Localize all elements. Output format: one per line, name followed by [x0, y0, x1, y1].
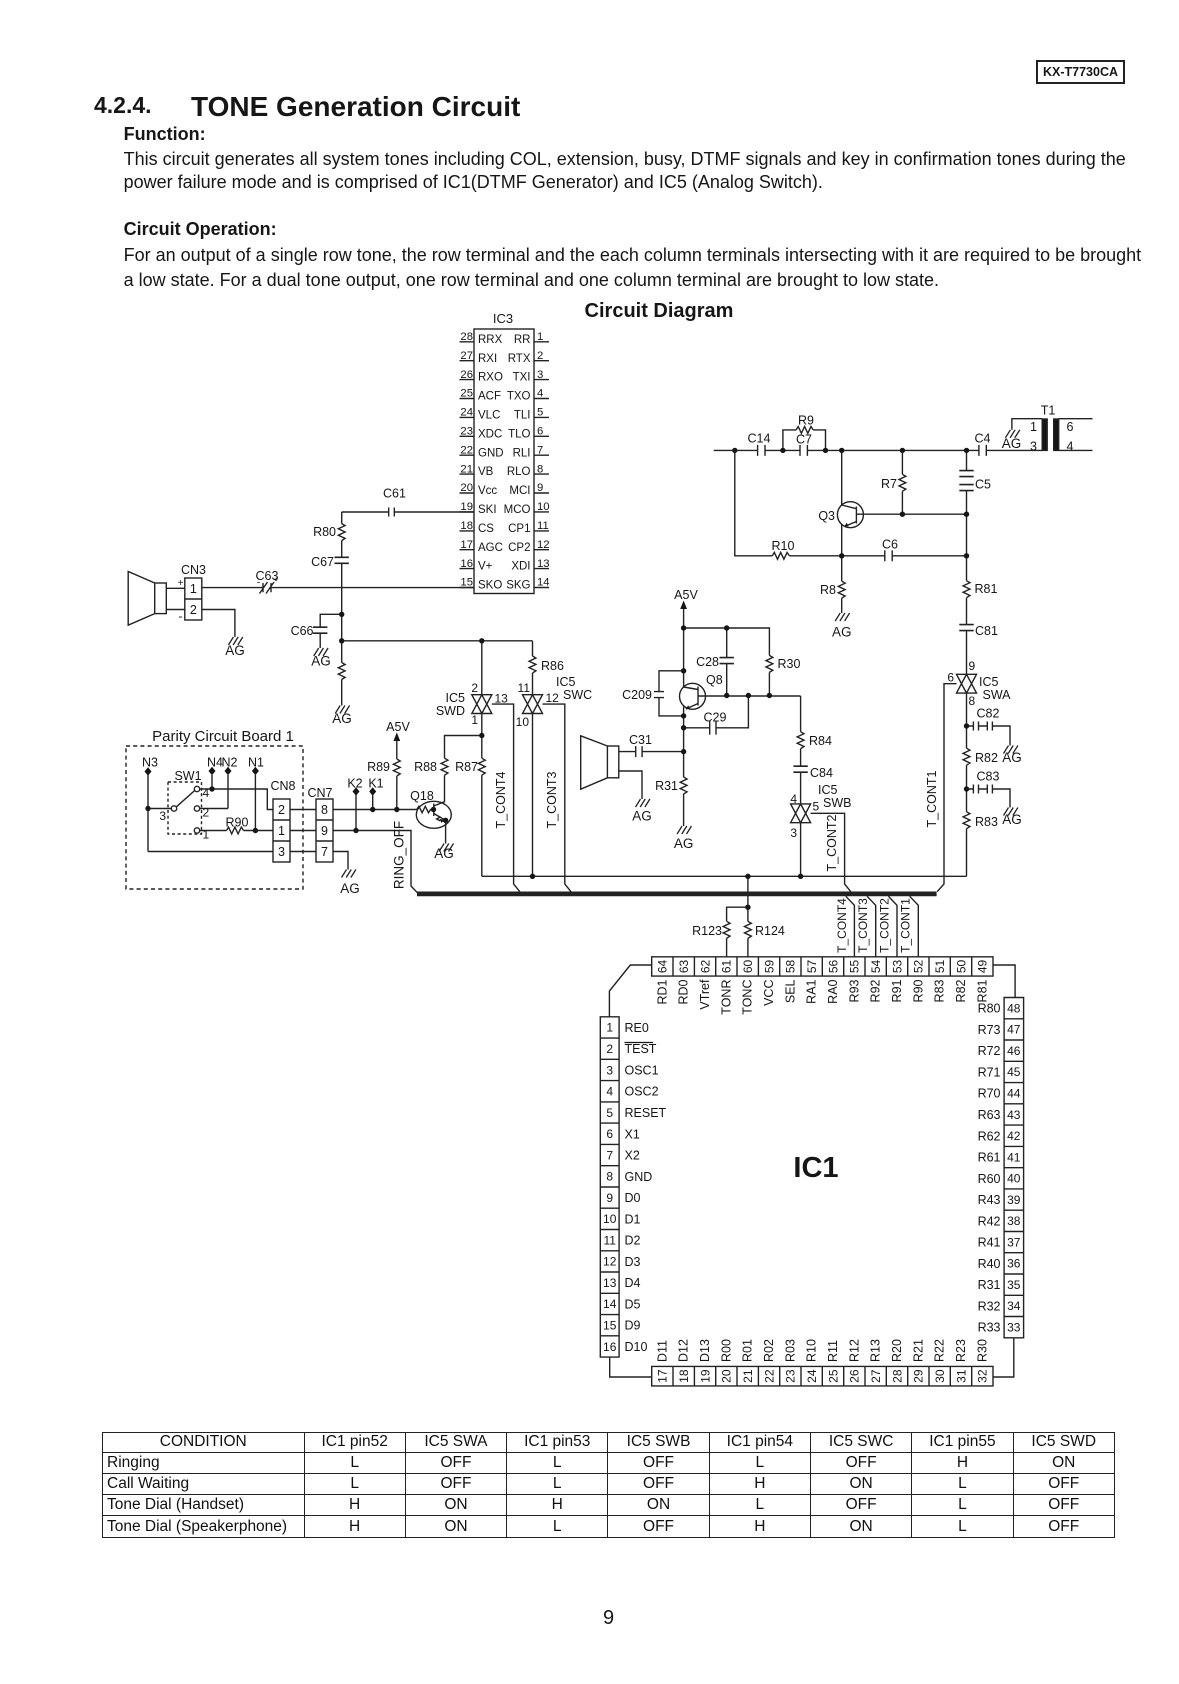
svg-text:39: 39 — [1007, 1193, 1021, 1207]
wire N4 down — [211, 775, 213, 789]
resistor R7 stub — [901, 450, 903, 474]
svg-text:R12: R12 — [847, 1339, 861, 1362]
svg-text:VCC: VCC — [762, 980, 776, 1006]
svg-text:R90: R90 — [226, 816, 249, 830]
main top wire — [714, 449, 1042, 451]
svg-text:11: 11 — [518, 681, 531, 695]
svg-text:R84: R84 — [809, 734, 832, 748]
IC1 bottom-left corner wire — [610, 1357, 652, 1377]
svg-text:12: 12 — [546, 691, 560, 705]
svg-text:2: 2 — [471, 681, 478, 695]
svg-text:X2: X2 — [625, 1149, 640, 1163]
condition table — [102, 1432, 1115, 1538]
svg-text:63: 63 — [677, 959, 691, 973]
svg-text:V+: V+ — [478, 561, 493, 573]
wire R86 stub — [532, 641, 534, 656]
wire Q8 collector — [698, 695, 801, 697]
svg-text:37: 37 — [1007, 1235, 1021, 1249]
svg-text:6: 6 — [1067, 420, 1074, 434]
svg-text:34: 34 — [1007, 1299, 1021, 1313]
wire SW1-2 to N2 — [200, 808, 228, 810]
wire A5V node to R30 corner — [684, 628, 770, 655]
svg-text:AG: AG — [332, 711, 352, 726]
svg-text:13: 13 — [603, 1276, 617, 1290]
capacitor C5 chain — [966, 450, 968, 555]
transistor Q18 — [416, 801, 451, 828]
svg-text:R21: R21 — [911, 1339, 925, 1362]
wire A5V node down to Q8 — [683, 628, 685, 687]
svg-text:40: 40 — [1007, 1172, 1021, 1186]
svg-text:D0: D0 — [625, 1191, 641, 1205]
svg-text:D2: D2 — [625, 1234, 641, 1248]
svg-text:-: - — [179, 609, 183, 623]
svg-text:58: 58 — [784, 959, 798, 973]
svg-text:13: 13 — [495, 692, 509, 706]
wire R89 to base wire — [396, 776, 398, 810]
svg-text:R80: R80 — [313, 525, 336, 539]
svg-text:1: 1 — [203, 828, 210, 842]
svg-text:R72: R72 — [978, 1044, 1001, 1058]
svg-text:R23: R23 — [954, 1339, 968, 1362]
svg-text:RR: RR — [514, 334, 531, 346]
resistor R86 — [529, 656, 536, 673]
svg-text:44: 44 — [1007, 1087, 1021, 1101]
connector CN3 — [185, 578, 202, 620]
svg-text:33: 33 — [1007, 1320, 1021, 1334]
wire resistor to AG — [341, 680, 343, 706]
svg-text:R40: R40 — [978, 1257, 1001, 1271]
svg-text:24: 24 — [805, 1369, 819, 1383]
svg-text:15: 15 — [460, 577, 473, 589]
svg-text:C81: C81 — [975, 624, 998, 638]
wire speaker to CN3 pin2 — [166, 609, 185, 611]
svg-text:6: 6 — [606, 1127, 613, 1141]
svg-text:R11: R11 — [826, 1340, 840, 1362]
svg-text:R31: R31 — [655, 779, 678, 793]
svg-text:MCI: MCI — [509, 485, 530, 497]
svg-text:+: + — [178, 578, 184, 589]
svg-text:2: 2 — [537, 350, 543, 362]
svg-text:46: 46 — [1007, 1044, 1021, 1058]
wire R84 to C84 — [800, 749, 802, 767]
svg-text:21: 21 — [741, 1369, 755, 1383]
svg-text:-: - — [257, 578, 260, 589]
svg-text:2: 2 — [606, 1042, 613, 1056]
svg-text:RRX: RRX — [478, 334, 503, 346]
svg-text:11: 11 — [603, 1233, 616, 1247]
svg-text:31: 31 — [954, 1369, 968, 1383]
wire to R83 — [966, 789, 968, 812]
switch SW1 contacts — [171, 806, 176, 811]
svg-text:SWB: SWB — [823, 796, 851, 810]
wire K1 down — [372, 795, 374, 810]
svg-text:AG: AG — [225, 643, 245, 658]
svg-text:VTref: VTref — [698, 979, 712, 1010]
svg-text:3: 3 — [159, 809, 166, 823]
svg-text:CN3: CN3 — [181, 563, 206, 577]
resistor R31 — [680, 777, 687, 794]
svg-text:RD1: RD1 — [655, 979, 669, 1004]
svg-text:CP2: CP2 — [508, 542, 530, 554]
svg-text:R8: R8 — [820, 583, 836, 597]
svg-text:GND: GND — [478, 447, 504, 459]
wire board bottom to CN8 pin3 — [148, 851, 273, 853]
svg-text:SKO: SKO — [478, 580, 502, 592]
capacitor C4 — [979, 445, 986, 456]
svg-text:R80: R80 — [978, 1002, 1001, 1016]
svg-text:22: 22 — [762, 1369, 776, 1383]
wire R31 to AG — [683, 794, 685, 826]
wire node row to R86 corner — [342, 640, 533, 642]
capacitor C82 — [967, 722, 1011, 746]
switch SW1 blade — [176, 791, 195, 808]
IC1 top-left corner wire — [609, 965, 651, 1017]
svg-text:K1: K1 — [368, 777, 383, 791]
wire SWA pin6 to T_CONT1 line — [937, 684, 956, 892]
model tag KX-T7730CA — [1036, 60, 1125, 84]
svg-text:AG: AG — [311, 654, 331, 669]
capacitor C31 — [619, 746, 684, 757]
svg-text:C6: C6 — [882, 538, 898, 552]
svg-text:56: 56 — [826, 959, 840, 973]
svg-text:VB: VB — [478, 466, 494, 478]
svg-text:1: 1 — [606, 1021, 613, 1035]
wire SWD pin13 to T_CONT4 line — [492, 704, 520, 892]
svg-text:23: 23 — [784, 1369, 798, 1383]
svg-text:42: 42 — [1007, 1129, 1021, 1143]
speaker SP center — [607, 746, 618, 778]
svg-text:T_CONT2: T_CONT2 — [825, 814, 839, 871]
svg-text:CS: CS — [478, 523, 494, 535]
IC1 right pin column (pins 48-33) — [1004, 998, 1024, 1338]
svg-text:R61: R61 — [978, 1151, 1001, 1165]
wire CN7 pin7 to AG — [333, 852, 348, 870]
wire T1 pin6 — [1059, 418, 1093, 420]
wire Q3 emitter down — [841, 525, 843, 556]
ground AG for T1 — [1005, 430, 1019, 438]
svg-text:16: 16 — [460, 558, 473, 570]
svg-text:R92: R92 — [869, 979, 883, 1002]
wire Q3 base drop — [841, 450, 843, 505]
svg-text:AG: AG — [674, 836, 694, 851]
svg-text:D11: D11 — [655, 1340, 669, 1362]
svg-text:27: 27 — [460, 350, 473, 362]
node N2 — [225, 767, 232, 776]
svg-text:60: 60 — [741, 959, 755, 973]
svg-text:26: 26 — [460, 369, 473, 381]
transistor Q3 — [837, 502, 863, 528]
svg-text:C5: C5 — [975, 478, 991, 492]
svg-text:R00: R00 — [719, 1339, 733, 1362]
svg-text:AG: AG — [434, 846, 454, 861]
wire R7 to collector wire — [901, 491, 903, 514]
svg-text:TXO: TXO — [507, 391, 531, 403]
svg-text:18: 18 — [460, 520, 473, 532]
resistor R10 — [772, 552, 789, 559]
resistor R80 stub — [341, 512, 343, 524]
svg-text:D1: D1 — [625, 1212, 641, 1226]
svg-text:R71: R71 — [978, 1065, 1001, 1079]
svg-text:MCO: MCO — [504, 504, 531, 516]
wire Q3 collector — [856, 513, 966, 515]
svg-text:50: 50 — [954, 959, 968, 973]
svg-text:5: 5 — [537, 407, 543, 419]
wire SWB pin3 to rail — [800, 823, 802, 877]
svg-text:D12: D12 — [677, 1339, 691, 1362]
resistor R82 — [963, 748, 970, 765]
Circuit Operation paragraph — [124, 245, 1142, 266]
svg-text:R33: R33 — [978, 1321, 1001, 1335]
svg-text:20: 20 — [460, 482, 473, 494]
wire speaker to AG — [619, 771, 642, 799]
wire R88 to Q18 collector — [444, 775, 446, 802]
svg-text:59: 59 — [762, 959, 776, 973]
capacitor C81 — [959, 625, 973, 631]
resistor R9 bypass loop — [783, 430, 826, 451]
svg-text:61: 61 — [720, 959, 734, 973]
svg-text:Q8: Q8 — [706, 673, 723, 687]
node K2 — [353, 787, 360, 796]
svg-text:48: 48 — [1007, 1001, 1021, 1015]
capacitor C67 — [335, 557, 349, 563]
svg-text:CN8: CN8 — [270, 779, 295, 793]
capacitor C5 — [959, 471, 973, 477]
wire R82 to C83 node — [966, 765, 968, 789]
wire C67 down across SKO to C66 node — [341, 563, 343, 641]
svg-text:IC1: IC1 — [793, 1152, 838, 1184]
svg-text:Q18: Q18 — [410, 789, 434, 803]
svg-text:4: 4 — [790, 792, 797, 806]
wire SW1-4 to CN8 pin2 — [200, 789, 273, 810]
svg-text:14: 14 — [537, 577, 550, 589]
svg-text:R9: R9 — [798, 414, 814, 428]
svg-text:52: 52 — [912, 959, 926, 973]
capacitor C63 — [260, 582, 275, 594]
svg-text:49: 49 — [976, 959, 990, 973]
svg-text:R87: R87 — [455, 760, 478, 774]
svg-text:C209: C209 — [622, 688, 652, 702]
svg-text:*: * — [274, 576, 279, 588]
ground AG for C82 — [1004, 746, 1018, 754]
svg-text:RXI: RXI — [478, 353, 497, 365]
svg-text:17: 17 — [460, 539, 473, 551]
wire SWC pin10 to rail — [532, 714, 534, 877]
capacitor C83 — [967, 785, 1011, 808]
resistor R8 — [838, 581, 845, 598]
wire R8 to AG — [841, 598, 843, 613]
svg-text:SKI: SKI — [478, 504, 497, 516]
wire rail to R123/R124 node — [747, 876, 749, 907]
wire SWC pin12 to T_CONT3 line — [543, 704, 572, 892]
resistor R90 — [227, 827, 244, 834]
svg-text:R91: R91 — [890, 979, 904, 1002]
svg-text:AG: AG — [1002, 812, 1022, 827]
svg-text:18: 18 — [677, 1369, 691, 1383]
svg-text:10: 10 — [603, 1212, 617, 1226]
IC3 right pin ticks — [534, 342, 549, 588]
svg-text:AGC: AGC — [478, 542, 503, 554]
resistor R30 — [766, 655, 773, 672]
Function paragraph — [124, 149, 1126, 170]
svg-text:SW1: SW1 — [174, 769, 201, 783]
svg-text:3: 3 — [606, 1063, 613, 1077]
svg-text:17: 17 — [656, 1369, 670, 1383]
svg-text:SWC: SWC — [563, 688, 592, 702]
svg-text:8: 8 — [969, 694, 976, 708]
ground AG for CN3 — [228, 637, 242, 645]
svg-text:R82: R82 — [975, 751, 998, 765]
svg-text:R123: R123 — [692, 924, 722, 938]
svg-text:47: 47 — [1007, 1023, 1021, 1037]
svg-text:OSC1: OSC1 — [625, 1063, 659, 1077]
svg-text:RTX: RTX — [508, 353, 531, 365]
svg-text:C82: C82 — [977, 707, 1000, 721]
IC3 left pin ticks — [460, 342, 475, 588]
svg-text:C4: C4 — [975, 432, 991, 446]
svg-text:2: 2 — [278, 803, 285, 817]
capacitor C84 — [793, 766, 807, 772]
svg-text:R93: R93 — [847, 979, 861, 1002]
wire to R81 — [966, 556, 968, 581]
svg-text:D3: D3 — [625, 1255, 641, 1269]
svg-text:51: 51 — [933, 959, 947, 973]
svg-text:TXI: TXI — [513, 372, 531, 384]
IC1 bottom-right corner wire — [993, 1338, 1014, 1377]
IC3 DTMF generator box — [474, 329, 534, 594]
svg-text:55: 55 — [848, 959, 862, 973]
svg-text:RXO: RXO — [478, 372, 503, 384]
svg-text:32: 32 — [976, 1369, 990, 1383]
IC1 top pin row (pins 64-49) — [652, 957, 993, 976]
wire R30 to collector wire — [768, 672, 770, 695]
svg-text:GND: GND — [625, 1170, 653, 1184]
svg-text:TEST: TEST — [625, 1042, 657, 1056]
wire node to unlabeled resistor — [341, 641, 343, 663]
svg-text:A5V: A5V — [674, 588, 698, 602]
svg-text:R124: R124 — [755, 924, 785, 938]
svg-text:OSC2: OSC2 — [625, 1085, 659, 1099]
svg-text:TONC: TONC — [741, 980, 755, 1015]
svg-text:D10: D10 — [625, 1340, 648, 1354]
svg-text:R81: R81 — [975, 979, 989, 1002]
resistor R7 — [899, 474, 906, 491]
svg-text:D4: D4 — [625, 1276, 641, 1290]
ground AG for R8 — [835, 613, 849, 621]
svg-text:R13: R13 — [869, 1339, 883, 1362]
wires CN8 to CN7 — [290, 810, 316, 852]
wire CN7 pin9 RING_OFF — [333, 831, 417, 893]
svg-text:RLO: RLO — [507, 466, 531, 478]
svg-text:AG: AG — [832, 625, 852, 640]
analog switch IC5 SWB — [791, 804, 811, 823]
wire N3 to SW1 com — [148, 808, 171, 810]
svg-text:SEL: SEL — [783, 979, 797, 1003]
svg-text:3: 3 — [790, 826, 797, 840]
power A5V arrow center — [683, 608, 685, 628]
svg-text:SWD: SWD — [436, 704, 465, 718]
svg-text:6: 6 — [947, 671, 954, 685]
svg-text:N3: N3 — [142, 756, 158, 770]
common rail wire — [482, 875, 967, 877]
svg-text:13: 13 — [537, 558, 550, 570]
wire collector to R84 — [800, 696, 802, 732]
svg-text:5: 5 — [813, 800, 820, 814]
resistor R124 — [745, 921, 752, 938]
resistor R123 — [723, 921, 730, 938]
svg-text:C61: C61 — [383, 487, 406, 501]
svg-text:53: 53 — [890, 959, 904, 973]
svg-text:RA1: RA1 — [805, 979, 819, 1003]
wire R87 to rail — [481, 775, 483, 876]
svg-text:SWA: SWA — [983, 688, 1012, 702]
capacitor C7 — [800, 445, 807, 456]
svg-text:R63: R63 — [978, 1108, 1001, 1122]
svg-text:T1: T1 — [1041, 404, 1056, 418]
IC1 bottom pin row (pins 17-32) — [652, 1366, 993, 1386]
wire Q8 emitter down — [683, 707, 685, 752]
switch SW1 dashed outline — [168, 782, 202, 834]
svg-text:C67: C67 — [311, 555, 334, 569]
svg-text:25: 25 — [826, 1369, 840, 1383]
svg-text:7: 7 — [321, 845, 328, 859]
wire SWD drop pin2 — [481, 641, 483, 695]
page number — [603, 1607, 614, 1630]
wire node to R123 — [727, 907, 748, 921]
svg-text:29: 29 — [912, 1369, 926, 1383]
svg-text:R81: R81 — [975, 582, 998, 596]
svg-text:36: 36 — [1007, 1257, 1021, 1271]
ground AG for C66 — [314, 648, 328, 656]
ground AG for speaker — [636, 799, 650, 807]
wire R8 stub — [841, 556, 843, 581]
IC1 left pin column (pins 1-16) — [600, 1017, 619, 1357]
Parity Circuit Board 1 dashed outline — [126, 746, 303, 889]
svg-text:CP1: CP1 — [508, 523, 530, 535]
svg-text:A5V: A5V — [386, 720, 410, 734]
wire T1 pin1 to AG — [1012, 419, 1042, 430]
svg-text:9: 9 — [969, 659, 976, 673]
svg-text:4: 4 — [203, 786, 210, 800]
svg-text:R31: R31 — [978, 1278, 1001, 1292]
wire Q18 emitter to AG — [445, 821, 447, 844]
svg-text:C29: C29 — [704, 711, 727, 725]
svg-text:T_CONT1: T_CONT1 — [899, 898, 913, 953]
svg-text:TLI: TLI — [514, 409, 531, 421]
svg-text:4: 4 — [1067, 440, 1074, 454]
svg-text:R22: R22 — [933, 1339, 947, 1362]
svg-text:9: 9 — [537, 482, 543, 494]
wire SWA pin8 to C82 node — [966, 693, 968, 726]
wire IC3 pin19 SKI to C61/R80 — [342, 511, 474, 513]
wire K2 down to RING_OFF wire — [355, 795, 357, 831]
svg-text:8: 8 — [606, 1170, 613, 1184]
node N3 — [145, 767, 152, 776]
transformer T1 — [1042, 419, 1047, 450]
capacitor C6 — [885, 550, 892, 561]
connector CN7 — [316, 799, 333, 862]
svg-text:22: 22 — [460, 444, 473, 456]
svg-text:21: 21 — [460, 463, 473, 475]
wire SW1-1 to R90 — [200, 830, 227, 832]
svg-text:VLC: VLC — [478, 409, 500, 421]
wire R31 stub — [683, 752, 685, 777]
svg-text:R30: R30 — [975, 1339, 989, 1362]
svg-text:12: 12 — [603, 1255, 617, 1269]
analog switch IC5 SWD — [472, 695, 492, 714]
wire R10 to C6 to right chain — [789, 555, 966, 557]
node K1 — [369, 787, 376, 796]
svg-text:24: 24 — [460, 407, 473, 419]
